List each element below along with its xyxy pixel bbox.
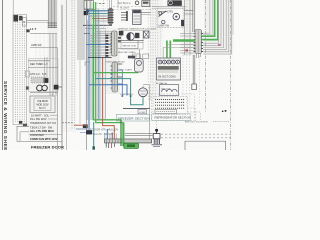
dashed vertical wire x74 bbox=[74, 0, 76, 130]
terminal board bbox=[157, 58, 181, 80]
green connector blob bbox=[124, 143, 139, 148]
relay box bbox=[133, 10, 141, 25]
loom 2 colored pins bbox=[111, 65, 113, 67]
left text marks column bbox=[118, 37, 121, 39]
verticals through cluster bbox=[44, 57, 46, 85]
gray harness right of x78 bbox=[77, 0, 79, 60]
blue-gray wire x92 bbox=[91, 25, 93, 120]
dashed vertical top mid 1 bbox=[103, 0, 105, 30]
freezer door panel bottom line bbox=[17, 141, 62, 143]
legend table dashed box bbox=[153, 97, 188, 115]
dark stub below bar bbox=[105, 143, 107, 148]
double wire 2 bbox=[194, 55, 196, 84]
loom 2 right side stubs bbox=[118, 63, 123, 65]
scan tint overlays bbox=[28, 0, 233, 142]
harness line to bottom bbox=[57, 48, 59, 151]
double gray lines to plug bbox=[125, 133, 153, 135]
legend inner box bbox=[155, 109, 177, 113]
dashed vertical 5 bbox=[159, 28, 161, 58]
green drop wires to terminal board bbox=[167, 41, 170, 60]
loom bar 2 bbox=[112, 62, 118, 92]
pink splice dot bbox=[218, 44, 220, 46]
right bundle 3 bbox=[189, 0, 191, 55]
plug base hatch 2 bbox=[153, 146, 160, 148]
control box inner bbox=[34, 98, 51, 111]
scan noise overlay bbox=[0, 0, 1, 1]
harness A tick row bbox=[48, 22, 58, 24]
right bundle 5 bbox=[193, 0, 195, 32]
terminal circle 1 bbox=[158, 60, 162, 64]
blue lead into bottom bar bbox=[106, 129, 108, 139]
bottom right box bbox=[185, 141, 226, 150]
extra row a bbox=[96, 31, 112, 33]
light blue wire x99 bbox=[98, 10, 100, 120]
gray bus wire below bbox=[85, 27, 106, 29]
dark block beside fan bbox=[135, 33, 139, 38]
defrost thermostat bulb bbox=[37, 85, 43, 91]
loom 1 pins bbox=[110, 33, 112, 35]
double wire down to small box bbox=[192, 55, 194, 84]
channel bottom dark marks bbox=[19, 121, 22, 124]
orange wire vertical bbox=[103, 58, 115, 139]
dash-dot inner border bbox=[205, 0, 207, 112]
compressor top stub bbox=[142, 86, 144, 88]
top small circle symbol bbox=[135, 1, 139, 5]
wire through fan box 2 bbox=[118, 41, 144, 43]
dark wire under compressor bbox=[123, 108, 150, 110]
green wire 1 vertical bbox=[94, 2, 122, 120]
wire lower fan box bbox=[118, 48, 138, 50]
gray stub above bar 2 bbox=[109, 134, 111, 140]
corner stub B bbox=[85, 61, 90, 63]
harness bundle B verticals bbox=[49, 34, 51, 97]
blue wire end box bbox=[86, 130, 92, 134]
right bundle verticals bbox=[184, 0, 186, 55]
header box top with cells bbox=[84, 1, 94, 10]
top wire blue horizontal bbox=[86, 10, 109, 12]
wire row 3 bbox=[50, 114, 58, 116]
freezer door panel line bbox=[29, 134, 62, 136]
housing lead right 1 bbox=[184, 10, 194, 12]
small box end bbox=[192, 84, 197, 90]
wire below bulbs bbox=[30, 92, 58, 94]
dashed vertical 2 bbox=[152, 0, 154, 96]
dark mark row mid bbox=[128, 56, 135, 58]
switch pivot circle bbox=[159, 12, 162, 15]
connector dashed lead 2 bbox=[113, 9, 152, 11]
terminal at y38 bbox=[106, 37, 109, 39]
housing lead right 2 bbox=[184, 13, 194, 15]
top wire gray horizontal a bbox=[90, 15, 109, 17]
loom bar 1 bbox=[112, 31, 117, 56]
blue stub below bar bbox=[108, 143, 110, 148]
stub wires above connector bbox=[117, 0, 119, 8]
right bundle dashed bbox=[186, 0, 188, 55]
channel side mark 2 bbox=[26, 87, 29, 90]
junction box outline top bbox=[30, 33, 57, 35]
gray stub above bar 3 bbox=[115, 134, 117, 140]
evap fan enclosure bbox=[121, 31, 143, 50]
dashed verticals mid right bbox=[182, 55, 184, 105]
wire row 4 bbox=[48, 118, 58, 120]
power cord dashed line 2 bbox=[161, 137, 231, 139]
blue vertical from loom2 bbox=[121, 70, 123, 96]
heater box with coils bbox=[160, 85, 179, 96]
overload circle bbox=[137, 61, 142, 66]
relay dark header bbox=[133, 11, 140, 13]
dashed vertical mr4 bbox=[199, 56, 201, 105]
connector top stubs bbox=[109, 0, 111, 8]
dark dash row left bbox=[62, 122, 74, 124]
freezer door nested panel corner inner bbox=[19, 132, 21, 142]
teal wire end tip bbox=[93, 147, 95, 150]
red splice left bbox=[186, 50, 188, 52]
wires left of loom3 gray bbox=[180, 33, 195, 35]
fan box inner wire bbox=[137, 41, 139, 49]
faint dashed 2 bbox=[39, 34, 41, 63]
terminal at y41 bbox=[106, 40, 109, 42]
plug prong hatch bbox=[153, 139, 155, 144]
FREEZER SECTION label box bbox=[116, 114, 149, 121]
fan motor dark half bbox=[127, 33, 131, 41]
top right small box bbox=[142, 1, 150, 7]
wire channel dashed lead 5 bbox=[24, 22, 26, 122]
wire y60.8 bbox=[28, 60, 50, 62]
gray wire x105 bbox=[104, 30, 106, 120]
wire to channel top 2 bbox=[27, 21, 49, 23]
dashed vertical wire x72 bbox=[71, 0, 73, 130]
terminal circle 4 bbox=[171, 60, 175, 64]
dashed vertical mr3 bbox=[189, 55, 191, 105]
header box bottom line bbox=[84, 8, 95, 10]
loom3 bottom stub 3 bbox=[200, 54, 202, 58]
blue wire vertical bbox=[88, 10, 90, 131]
terminal block dark bbox=[54, 85, 58, 89]
temp control switch diagonal bbox=[159, 11, 167, 17]
top right control housing text block bbox=[168, 1, 182, 6]
header cell divider 2 bbox=[89, 1, 91, 10]
fan motor circle right bbox=[173, 13, 180, 20]
terminal circle 3 bbox=[167, 60, 171, 64]
corner stub A bbox=[84, 33, 90, 35]
top wire teal horizontal bbox=[88, 12, 109, 14]
loom3 bottom stub 2 bbox=[198, 54, 200, 59]
terminal circle 2 bbox=[163, 60, 167, 64]
wire through fan box bbox=[118, 40, 144, 42]
plug body bbox=[153, 134, 160, 139]
dashed vertical 4 bbox=[157, 0, 159, 58]
terminal at y47 bbox=[106, 46, 109, 48]
wire stub above channel bbox=[12, 0, 14, 15]
loom3 bottom stubs bbox=[196, 54, 198, 59]
connector top dashed leads right bbox=[113, 6, 152, 8]
hatched thermostat block bbox=[31, 77, 46, 83]
loom 2 inner line bbox=[114, 63, 116, 91]
nested corner wires right bbox=[203, 0, 218, 43]
drain heater bulb bbox=[42, 85, 47, 90]
component cluster outline left bbox=[29, 59, 59, 92]
wire dark x86 bbox=[85, 0, 87, 150]
channel header block bbox=[14, 15, 18, 21]
dark mark lower left-mid bbox=[83, 125, 88, 128]
junction box bottom bbox=[30, 47, 58, 49]
dashed vertical wire x66 bbox=[66, 0, 68, 150]
bottom long connector bar bbox=[105, 139, 152, 143]
blue dash marks bbox=[76, 128, 88, 130]
control housing box bbox=[157, 8, 184, 28]
wire from terminal to x62 bbox=[58, 86, 62, 88]
housing side dark bars bbox=[181, 20, 184, 26]
heater coil bumps bbox=[162, 89, 178, 92]
gray wire x91 bbox=[90, 0, 92, 120]
blue junction dots bbox=[121, 95, 123, 97]
green thick vertical into bar bbox=[120, 120, 122, 146]
loom 1 inner line bbox=[113, 32, 115, 55]
REFRIGERATOR SECTION label box bbox=[152, 114, 190, 121]
wire channel dashed lead 2 bbox=[17, 22, 19, 122]
gray harness continues bbox=[79, 60, 81, 124]
terminal at y50 bbox=[106, 49, 109, 51]
lamp circle bbox=[162, 20, 165, 23]
long vertical wire x62 bbox=[61, 5, 63, 150]
wrap dashed wire 2 bbox=[188, 112, 201, 121]
plug base hatch bbox=[152, 144, 163, 146]
terminal circle 5 bbox=[176, 60, 180, 64]
dark wire horizontal bbox=[88, 57, 112, 59]
dashed vertical 3 bbox=[154, 0, 156, 100]
overload riser wire bbox=[139, 50, 141, 59]
channel side mark 1 bbox=[27, 30, 30, 33]
teal wire to compressor bbox=[95, 79, 143, 105]
top wire gray horizontal b bbox=[94, 20, 109, 22]
crossed heater box bbox=[144, 31, 149, 38]
wire mid left bbox=[28, 67, 58, 69]
bottom bar left ticks bbox=[106, 140, 108, 143]
dark stub above bar bbox=[111, 133, 113, 140]
gray wires wrap into board bbox=[167, 45, 195, 62]
dotted row bottom right bbox=[213, 120, 230, 122]
left text mark 2 bbox=[118, 40, 121, 42]
evap fan motor circle bbox=[127, 33, 135, 41]
wire right edge of freezer section bbox=[149, 85, 151, 143]
harness bundle A verticals bbox=[48, 0, 50, 28]
terminal board comb hatch bbox=[158, 70, 160, 73]
plug connector pins bbox=[121, 12, 127, 14]
blue wire lower horizontal bbox=[89, 85, 127, 96]
wire channel dashed lead 1 bbox=[14, 22, 16, 122]
gray wire wrap 2 bbox=[163, 48, 195, 62]
edge line partial bbox=[232, 0, 234, 35]
connector pin ticks bbox=[108, 9, 114, 11]
housing top line 2 bbox=[152, 7, 186, 9]
wire channel dashed lead 3 bbox=[19, 22, 21, 122]
teal wire bottom vertical bbox=[93, 122, 95, 147]
faint dashed verticals upper-left bbox=[35, 34, 37, 63]
plug connector bar bbox=[126, 11, 128, 21]
teal-gray wire x100 bbox=[99, 30, 101, 120]
wire to right edge bbox=[143, 84, 150, 86]
legend text row 4 bbox=[155, 107, 185, 109]
legend text row 1 bbox=[155, 99, 185, 101]
overload protector bbox=[134, 59, 143, 73]
right bundle 4 bbox=[192, 0, 194, 32]
terminal at y44 bbox=[106, 43, 109, 45]
relay leads right bbox=[141, 12, 151, 14]
green wire left of loom3 bbox=[173, 39, 195, 42]
text block circle symbol bbox=[169, 1, 173, 5]
dark connector blob bbox=[84, 11, 88, 15]
loom 3 inner line bbox=[197, 31, 199, 53]
green wire horizontal to overload bbox=[94, 63, 138, 73]
comp label box bbox=[138, 110, 147, 114]
stubs above bottom bar bbox=[104, 133, 106, 139]
cable channel box bbox=[13, 15, 27, 125]
power cord dashed line 1 bbox=[161, 133, 231, 135]
top wire junction dot bbox=[86, 10, 89, 13]
compressor motor bbox=[139, 88, 148, 97]
red segment row bbox=[74, 124, 88, 126]
red stub below bar bbox=[111, 143, 113, 148]
dashed vertical top mid 2 bbox=[107, 0, 109, 30]
green main wire right A bbox=[202, 0, 215, 36]
bottom bar center line bbox=[106, 140, 152, 142]
dark blob beside hatch bbox=[44, 78, 48, 82]
dark box left of fan bbox=[119, 31, 123, 35]
top wire brown horizontal bbox=[92, 18, 109, 20]
vertical through cluster 2 bbox=[46, 57, 48, 78]
channel bottom mark 2 bbox=[23, 124, 27, 126]
inner gray corner wires bbox=[203, 0, 210, 33]
gray wire x98 bbox=[97, 8, 99, 120]
wire channel dashed lead 4 bbox=[21, 22, 23, 122]
plug stem bbox=[156, 132, 158, 134]
gray wire x87 bbox=[86, 20, 88, 120]
faint dashed 3 bbox=[43, 34, 45, 58]
gray stub below bar bbox=[114, 143, 116, 147]
terminal board dark hatch band bbox=[158, 66, 179, 69]
channel side box bbox=[26, 71, 30, 77]
wrap dashed wires right bbox=[188, 108, 196, 121]
extra row b bbox=[94, 33, 112, 35]
freezer door nested panel corner outer bbox=[16, 126, 18, 142]
top right box mark bbox=[143, 2, 148, 4]
wire to channel top bbox=[27, 20, 49, 22]
blue wire horizontal mid bbox=[86, 44, 111, 46]
dash-dot right border bbox=[230, 0, 232, 150]
top connector spindle bbox=[109, 8, 112, 25]
terminal at y53 bbox=[106, 52, 109, 54]
legend inner text bbox=[157, 110, 176, 112]
header cell divider 1 bbox=[86, 1, 88, 10]
control box left outer bbox=[30, 96, 55, 113]
housing top line 1 bbox=[152, 6, 186, 8]
channel header small box bbox=[23, 18, 27, 27]
legend text row 2 bbox=[155, 101, 185, 103]
dashed vertical 0 bbox=[147, 0, 149, 100]
power cord riser dashed bbox=[156, 121, 158, 130]
page fold edge line bbox=[2, 0, 4, 150]
dark bus wire horizontal bbox=[83, 24, 112, 26]
legend outer dashed box bbox=[152, 94, 195, 121]
terminal at y55.8 bbox=[106, 55, 109, 57]
connector top stub 2 bbox=[110, 0, 112, 8]
dashed vertical mr2 bbox=[186, 55, 188, 105]
label box 2 bbox=[143, 54, 149, 58]
loom bar 3 bbox=[195, 30, 202, 54]
terminal at y35.5 bbox=[106, 35, 109, 37]
green main wire right B bbox=[202, 0, 218, 40]
legend text row 3 bbox=[155, 104, 185, 106]
loom 3 left pins bbox=[194, 33, 196, 35]
power cord plug bbox=[155, 129, 158, 132]
loom 3 right pins bbox=[201, 33, 203, 35]
label box 1 bbox=[133, 54, 141, 58]
green wire 2 vertical bbox=[96, 2, 124, 123]
